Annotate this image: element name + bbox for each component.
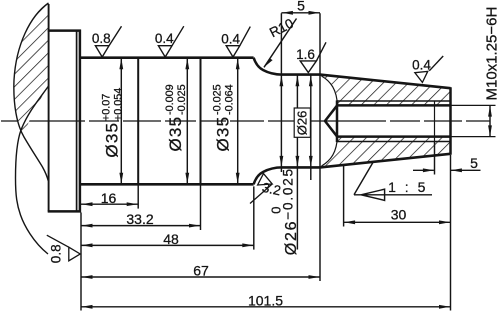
section break wavy upper <box>322 76 338 105</box>
svg-text:5: 5 <box>470 155 478 171</box>
svg-text:0.4: 0.4 <box>155 31 174 46</box>
dim 101.5 <box>81 306 451 308</box>
svg-text:1.6: 1.6 <box>296 47 315 62</box>
right end face <box>449 87 452 155</box>
label 035 #3 <box>211 84 235 151</box>
flange bottom edge <box>48 210 81 213</box>
fillet bottom <box>254 167 282 184</box>
finish 0.8 on flange face <box>47 235 80 263</box>
M10 dim line <box>489 105 491 136</box>
svg-text:+0.054: +0.054 <box>112 88 124 121</box>
centerline <box>1 120 490 122</box>
thread major bottom <box>337 141 451 143</box>
dim 026-0.025 line <box>280 13 282 172</box>
label 026 upper tol 0 <box>268 207 283 214</box>
flange face extension line <box>80 213 82 311</box>
svg-text:0.8: 0.8 <box>92 31 111 46</box>
svg-text:-0.064: -0.064 <box>223 84 235 115</box>
dim 026 boxed line <box>310 75 312 180</box>
finish 1.6 on neck <box>296 42 326 72</box>
finish 3.2 on lower fillet <box>250 174 282 204</box>
thread major top <box>337 100 451 102</box>
right face extension line <box>450 155 452 311</box>
dim 5 right arrows <box>413 169 434 171</box>
svg-text:0.4: 0.4 <box>221 31 240 46</box>
taper symbol <box>354 189 432 200</box>
boxed 026 text <box>295 111 310 136</box>
svg-text:30: 30 <box>391 207 407 223</box>
svg-text:Ø35: Ø35 <box>166 116 185 152</box>
step line 2 <box>200 57 202 186</box>
svg-text:+0.07: +0.07 <box>100 94 112 121</box>
svg-text:67: 67 <box>193 263 209 279</box>
flange break line lower arc <box>16 86 49 254</box>
R10 text <box>267 16 296 41</box>
svg-text:5: 5 <box>297 0 305 14</box>
R10 leader <box>264 19 297 68</box>
svg-text:0.4: 0.4 <box>412 58 431 73</box>
neck 026 bottom edge <box>281 166 321 169</box>
finish 0.4 on shaft 2 <box>155 26 184 57</box>
dim 67 <box>81 276 320 278</box>
label 035 #1 <box>100 88 124 158</box>
svg-text:Ø26: Ø26 <box>295 111 310 136</box>
svg-text:-0.025: -0.025 <box>176 84 188 115</box>
threaded hole minor bottom <box>336 135 451 138</box>
taper section hatch upper <box>321 76 451 106</box>
section break wavy lower <box>322 137 338 166</box>
finish 0.4 on shaft 3 <box>221 27 250 57</box>
taper bottom edge <box>320 154 451 168</box>
hole line extension right top <box>451 104 496 106</box>
shaft 035 top edge <box>80 56 254 59</box>
flange face inner line <box>76 31 78 212</box>
step line 1 <box>137 57 139 186</box>
finish 0.4 on taper <box>415 71 429 83</box>
neck 026 top edge <box>281 73 321 76</box>
taper start extension line <box>319 13 321 281</box>
svg-text:Ø35: Ø35 <box>214 116 233 152</box>
flange break line upper arc <box>14 3 49 181</box>
dim 035 #1 line <box>120 59 122 183</box>
svg-text:0: 0 <box>268 207 283 214</box>
svg-text:Ø35: Ø35 <box>103 122 122 158</box>
finish 0.8 on shaft 1 <box>92 26 122 57</box>
taper symbol leader <box>354 162 374 195</box>
svg-text:48: 48 <box>163 231 179 247</box>
label 035 #2 <box>164 84 188 151</box>
svg-text:-0.009: -0.009 <box>164 84 176 115</box>
flange top edge <box>48 29 81 32</box>
dim 16 <box>81 203 138 205</box>
thread end line <box>434 101 436 142</box>
boxed 026 frame <box>294 108 310 137</box>
drill cone <box>325 105 338 137</box>
dim 33.2 <box>81 225 201 227</box>
dim 035 #3 line <box>237 59 239 183</box>
fillet top R10 <box>254 58 282 75</box>
dim 48 <box>81 244 254 246</box>
dim 026-0.025 label line <box>296 75 298 249</box>
svg-text:1 : 5: 1 : 5 <box>388 179 428 195</box>
svg-text:M10x1.25−6H: M10x1.25−6H <box>484 7 500 101</box>
hole line extension right bottom <box>451 136 496 138</box>
flange face main line <box>79 30 82 213</box>
svg-text:33.2: 33.2 <box>126 211 153 227</box>
flange broken-section hatch <box>14 3 49 136</box>
shaft 035 bottom edge <box>80 183 254 186</box>
svg-text:-0.025: -0.025 <box>211 84 223 115</box>
dim 5 top line <box>281 12 320 14</box>
label 026-0.025 <box>281 167 301 255</box>
svg-text:16: 16 <box>101 190 117 206</box>
threaded hole minor top <box>336 104 451 107</box>
dim 30 line <box>344 221 451 223</box>
taper top edge <box>320 75 451 89</box>
thread start line <box>336 100 339 142</box>
dim 035 #2 line <box>186 59 188 183</box>
taper section hatch lower <box>321 137 451 167</box>
M10 thread label <box>484 7 500 101</box>
flange left section edge <box>48 4 50 212</box>
svg-text:0.8: 0.8 <box>49 244 64 263</box>
thread end extension <box>434 142 436 175</box>
svg-text:101.5: 101.5 <box>248 292 283 308</box>
dim 30 ext line <box>343 166 345 227</box>
